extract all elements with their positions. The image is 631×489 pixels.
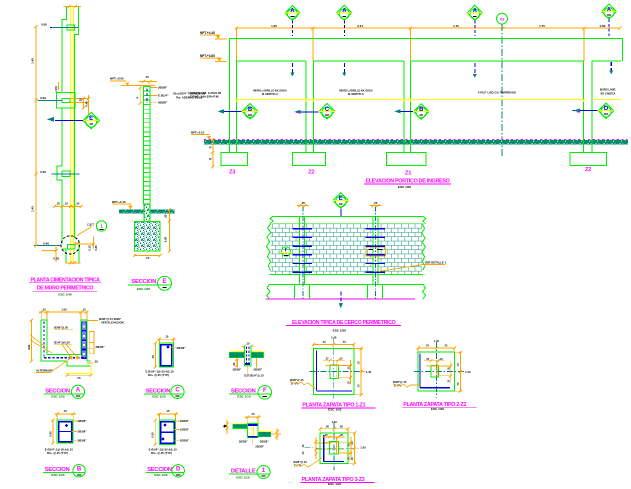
svg-text:2Ø3/8″: 2Ø3/8″	[78, 439, 88, 443]
seccion D stirrup	[161, 422, 174, 443]
svg-text:.70: .70	[322, 340, 326, 344]
fence column 2	[373, 224, 378, 274]
zapata PLANTA ZAPATA TIPO 3-Z3 outline	[320, 433, 348, 464]
zapata PLANTA ZAPATA TIPO 2-Z2 top dimension	[418, 347, 455, 349]
svg-text:1.40: 1.40	[465, 370, 471, 374]
detalle 1 notes	[252, 437, 254, 444]
zapata PLANTA ZAPATA TIPO 2-Z2 inner dims	[424, 360, 445, 362]
label SECCION B	[43, 465, 85, 478]
svg-text:NPT.+0.15: NPT.+0.15	[191, 130, 205, 134]
svg-text:Z1: Z1	[405, 170, 411, 176]
seccion A left dim	[30, 320, 32, 361]
svg-text:E: E	[162, 279, 166, 285]
seccion F left bar	[229, 352, 245, 358]
section E rebar dash	[146, 89, 148, 103]
fence column 1	[300, 224, 305, 274]
seccion B top dim	[55, 413, 77, 415]
svg-text:.15: .15	[82, 308, 86, 312]
seccion A top dimension	[39, 311, 88, 313]
svg-text:E: E	[339, 196, 343, 202]
seccion D outline	[159, 420, 175, 444]
svg-text:.70: .70	[425, 344, 429, 348]
cut line to marker E	[55, 119, 83, 121]
ground hatch band	[204, 140, 628, 145]
svg-text:.70: .70	[357, 384, 361, 388]
svg-text:KK CABEZA: KK CABEZA	[601, 92, 616, 95]
marker B column 3	[396, 110, 413, 112]
seccion A rebar bottom	[44, 357, 86, 359]
svg-text:.70: .70	[357, 361, 361, 365]
svg-text:.70: .70	[456, 362, 460, 366]
svg-text:ESC 1/25: ESC 1/25	[154, 473, 168, 477]
svg-text:Rto. @.25 (TYP): Rto. @.25 (TYP)	[47, 451, 68, 455]
detalle 1 column top bar	[248, 424, 258, 426]
zapata Z3 axis extension left	[305, 447, 317, 449]
zapata PLANTA ZAPATA TIPO 1-Z1 centerlines	[333, 338, 335, 401]
zapata PLANTA ZAPATA TIPO 1-Z1 inner dims	[323, 359, 344, 361]
svg-text:0.40: 0.40	[48, 431, 52, 437]
portico sill yellow line	[237, 98, 584, 100]
wall plan top dimension	[64, 5, 81, 7]
svg-text:.25: .25	[76, 202, 80, 206]
portico beam top chord	[229, 38, 622, 40]
svg-text:Z2: Z2	[308, 170, 314, 176]
section E right dimension	[168, 210, 170, 252]
seccion B mid bar	[59, 431, 72, 433]
svg-text:VER ELEVACION: VER ELEVACION	[101, 321, 124, 325]
svg-text:1.45: 1.45	[30, 58, 34, 64]
section marker A	[467, 5, 483, 20]
svg-text:Ø3/8″@.15: Ø3/8″@.15	[293, 460, 307, 464]
svg-text:1.40: 1.40	[434, 339, 440, 343]
svg-text:.25: .25	[151, 355, 155, 359]
svg-text:.15: .15	[246, 342, 250, 346]
portico column 4	[583, 61, 585, 153]
zapata PLANTA ZAPATA TIPO 3-Z3 inner dims	[322, 436, 345, 438]
column plan base	[67, 245, 75, 250]
detalle 1 label	[229, 466, 270, 480]
section E bottom dimension	[135, 254, 161, 256]
svg-text:NPT.+0.60: NPT.+0.60	[110, 77, 124, 81]
zapata PLANTA ZAPATA TIPO 1-Z1 outline	[314, 348, 354, 394]
svg-text:1.35: 1.35	[271, 24, 277, 28]
detalle 1 left bar	[233, 424, 248, 428]
svg-text:2Ø3/8″: 2Ø3/8″	[180, 439, 190, 443]
svg-text:0.15: 0.15	[88, 245, 92, 251]
plan title	[29, 277, 102, 296]
section E label	[128, 276, 172, 291]
zapata PLANTA ZAPATA TIPO 1-Z1 column	[330, 365, 338, 378]
svg-text:E: E	[89, 115, 93, 122]
column plan lower	[62, 171, 70, 176]
seccion D mid bar	[161, 431, 174, 433]
section marker E	[83, 112, 99, 128]
footing Z3 elevation	[221, 152, 248, 165]
ground magenta line	[204, 139, 628, 141]
svg-text:.15: .15	[145, 75, 149, 79]
zapata PLANTA ZAPATA TIPO 3-Z3 rebar	[323, 435, 325, 462]
seccion D top dim	[157, 413, 178, 415]
zapata PLANTA ZAPATA TIPO 3-Z3 right dimension	[354, 433, 356, 464]
marker B column 1	[222, 110, 243, 112]
zapata PLANTA ZAPATA TIPO 3-Z3 column	[329, 442, 338, 454]
fence column 1 base	[294, 284, 296, 299]
portico beam right end	[621, 39, 623, 61]
svg-text:Ø1/4″@0.20: Ø1/4″@0.20	[54, 340, 70, 344]
portico top dimension line	[236, 27, 620, 29]
zapata PLANTA ZAPATA TIPO 2-Z2 right dimension	[459, 352, 461, 391]
svg-text:D: D	[604, 106, 609, 112]
svg-text:2Ø3/8″: 2Ø3/8″	[78, 429, 88, 433]
axis line through lower column	[52, 173, 80, 175]
wall plan left outer line	[57, 6, 67, 263]
svg-text:ESC 1/25: ESC 1/25	[431, 407, 445, 411]
marker C column 2	[296, 111, 319, 113]
fence detail box	[366, 247, 386, 256]
seccion A outer wall	[41, 320, 90, 366]
axis line through top column	[53, 26, 78, 28]
fence column rebar bars	[293, 228, 312, 230]
svg-text:1.10: 1.10	[453, 24, 459, 28]
svg-text:.70: .70	[145, 256, 150, 260]
svg-text:MURO LADRILLO KK SOGA: MURO LADRILLO KK SOGA	[253, 90, 287, 93]
axis leader dashes below A markers	[291, 20, 293, 36]
axis X3 bubble	[497, 13, 508, 24]
svg-text:Rto. @.25 (TYP): Rto. @.25 (TYP)	[151, 451, 172, 455]
seccion C outline	[159, 343, 173, 367]
seccion A rebar right stirrups	[82, 322, 86, 331]
svg-text:ESC 1/25: ESC 1/25	[328, 407, 342, 411]
marker D column 4	[573, 110, 599, 112]
svg-text:X3: X3	[500, 16, 506, 21]
svg-text:.15: .15	[166, 409, 170, 413]
svg-text:CONC. 1:8+25% P.M.: CONC. 1:8+25% P.M.	[190, 94, 219, 98]
section marker A	[601, 4, 617, 19]
svg-text:.15: .15	[42, 308, 46, 312]
svg-text:2Ø3/8″: 2Ø3/8″	[239, 439, 248, 443]
svg-text:6 P1/2″ LISO C/A TEMPERADO: 6 P1/2″ LISO C/A TEMPERADO	[478, 90, 516, 94]
svg-text:.70: .70	[76, 376, 80, 380]
svg-text:1Ø3/8″: 1Ø3/8″	[180, 427, 190, 431]
svg-text:2Ø3/8″: 2Ø3/8″	[260, 439, 269, 443]
sill tick triangles	[235, 100, 238, 102]
column plan middle	[56, 93, 74, 108]
section marker B	[242, 104, 259, 120]
detalle 1 column	[247, 423, 258, 437]
zapata PLANTA ZAPATA TIPO 2-Z2 title	[402, 402, 476, 411]
svg-text:0.25: 0.25	[94, 245, 98, 251]
seccion F top dim	[241, 345, 255, 347]
svg-text:.30: .30	[163, 214, 167, 218]
lower dim .25 .15 .25	[55, 205, 82, 207]
detalle 1 top dim	[245, 416, 262, 418]
svg-text:ESC 1/40: ESC 1/40	[58, 293, 72, 297]
zapata PLANTA ZAPATA TIPO 2-Z2 column	[431, 365, 439, 376]
section E ground band	[119, 210, 174, 214]
fence top band right break	[423, 217, 426, 224]
middle column side dims	[70, 97, 89, 99]
zapata PLANTA ZAPATA TIPO 3-Z3 top dimension	[320, 428, 348, 430]
ground depth dimension	[212, 140, 214, 167]
section E footing	[135, 221, 161, 251]
svg-text:0.80: 0.80	[600, 24, 606, 28]
seccion F yellow cap line	[231, 351, 263, 353]
svg-text:2Ø3/8″: 2Ø3/8″	[253, 368, 262, 372]
svg-text:VER DETALLE 1: VER DETALLE 1	[425, 260, 447, 264]
portico top dim extension lines	[235, 28, 237, 61]
label SECCION D	[146, 465, 184, 478]
footing Z1 elevation	[386, 152, 426, 165]
seccion C left dim	[155, 343, 157, 367]
axis line through middle column	[37, 99, 62, 101]
seccion A leader lines	[62, 344, 78, 357]
section E wall neck hatch	[144, 204, 150, 221]
svg-text:0.60: 0.60	[41, 23, 47, 27]
svg-text:ESC 1/25: ESC 1/25	[51, 473, 65, 477]
seccion A rebar dots	[70, 357, 72, 359]
detalle 1 column bottom bar	[248, 436, 258, 438]
zapata PLANTA ZAPATA TIPO 2-Z2 outline	[418, 352, 455, 391]
svg-text:2Ø3/8″: 2Ø3/8″	[96, 345, 106, 349]
zapata PLANTA ZAPATA TIPO 2-Z2 rebar	[419, 354, 421, 388]
portico centerline	[501, 24, 503, 156]
fence lower band breaks	[267, 284, 270, 299]
section marker D	[598, 103, 615, 119]
svg-text:Z3: Z3	[229, 170, 235, 176]
seccion A inner lines	[47, 355, 90, 361]
svg-text:.50: .50	[325, 425, 329, 429]
svg-text:1.00: 1.00	[360, 446, 366, 450]
svg-text:1.75: 1.75	[539, 24, 545, 28]
svg-text:2Ø3/8″: 2Ø3/8″	[78, 419, 88, 423]
footing Z2 elevation	[292, 152, 325, 165]
svg-text:C: C	[175, 387, 180, 393]
svg-text:1.00: 1.00	[61, 308, 67, 312]
seccion F right bar	[251, 352, 264, 358]
fence brick left edge break	[266, 224, 271, 270]
fence brick field	[271, 224, 423, 274]
zapata PLANTA ZAPATA TIPO 2-Z2 centerlines	[435, 342, 437, 398]
svg-text:.25: .25	[56, 202, 60, 206]
svg-text:NPT.+0.15: NPT.+0.15	[112, 200, 126, 204]
svg-text:0.40: 0.40	[84, 101, 88, 107]
svg-text:C: C	[325, 107, 330, 113]
svg-text:EST.Ø1/4″@.10: EST.Ø1/4″@.10	[244, 373, 264, 377]
portico title	[364, 179, 451, 189]
svg-text:.20: .20	[233, 362, 236, 366]
svg-text:ESC 1/25: ESC 1/25	[51, 394, 65, 398]
svg-text:.15: .15	[165, 335, 169, 339]
svg-text:M. MORT/C:A: M. MORT/C:A	[262, 93, 278, 96]
fence marker F	[281, 247, 290, 256]
zapata PLANTA ZAPATA TIPO 3-Z3 centerlines	[333, 423, 335, 470]
svg-text:ESC 1/25: ESC 1/25	[328, 482, 342, 486]
svg-text:F: F	[285, 247, 288, 252]
svg-text:0.25: 0.25	[53, 257, 59, 261]
zapata PLANTA ZAPATA TIPO 1-Z1 title	[301, 402, 375, 411]
svg-text:3.44: 3.44	[357, 24, 363, 28]
footing Z2b elevation	[570, 152, 607, 165]
axis line through base column	[34, 244, 61, 246]
seccion F notes	[237, 358, 239, 368]
fence brick bottom line	[270, 273, 424, 275]
svg-text:2Ø3/8″: 2Ø3/8″	[255, 445, 264, 449]
svg-text:1.45: 1.45	[30, 206, 34, 212]
svg-text:.25: .25	[79, 98, 83, 102]
svg-text:B: B	[248, 107, 253, 113]
seccion D left dim	[154, 420, 156, 444]
svg-text:3Ø3/8″: 3Ø3/8″	[158, 86, 168, 90]
svg-text:.25: .25	[94, 359, 98, 363]
svg-text:Rto. @.25 (TYP): Rto. @.25 (TYP)	[148, 373, 169, 377]
section E rebar leaders	[151, 86, 158, 88]
svg-text:Ø3/8″@.15: Ø3/8″@.15	[290, 378, 304, 382]
base bottom tick line	[66, 262, 81, 264]
fence detail leader	[379, 265, 446, 272]
dim above middle column	[58, 82, 60, 90]
zapata PLANTA ZAPATA TIPO 1-Z1 rebar	[315, 351, 317, 391]
seccion A right wall dim bracket	[89, 332, 94, 354]
label SECCION C	[144, 385, 184, 398]
section E wall ladder	[144, 87, 150, 204]
section marker A	[336, 5, 352, 20]
svg-text:.15: .15	[64, 202, 68, 206]
seccion A rebar vertical left	[43, 322, 45, 357]
portico column 2	[305, 61, 307, 153]
svg-text:A: A	[76, 387, 81, 393]
section E left bracket dim	[139, 88, 141, 104]
seccion A bottom dim	[67, 374, 90, 376]
svg-text:B: B	[419, 107, 424, 113]
svg-text:ESC 1/50: ESC 1/50	[333, 328, 347, 332]
fence column 2 base	[367, 284, 369, 299]
seccion C top dim	[157, 338, 176, 340]
svg-text:2Ø3/8″: 2Ø3/8″	[180, 419, 190, 423]
section marker A	[284, 5, 300, 20]
svg-text:1.40: 1.40	[366, 370, 372, 374]
detalle 1 left dim	[226, 420, 228, 435]
svg-text:.70: .70	[342, 340, 346, 344]
wall plan right outer line	[74, 6, 79, 263]
seccion C bar dot	[166, 345, 169, 348]
column plan top	[67, 25, 74, 30]
svg-text:0.60: 0.60	[40, 170, 46, 174]
svg-text:2Ø3/8″: 2Ø3/8″	[177, 346, 187, 350]
svg-text:.25: .25	[301, 201, 305, 205]
seccion D bar dots	[163, 423, 166, 426]
portico beam bottom segments	[237, 60, 307, 62]
detalle 1 column inner lines	[250, 426, 252, 436]
fence bottom axis arrow	[340, 292, 342, 304]
cut arrow	[48, 117, 54, 121]
section E top level line	[121, 85, 155, 87]
svg-text:1.40: 1.40	[331, 336, 337, 340]
fence ground magenta line	[265, 298, 415, 300]
zapata PLANTA ZAPATA TIPO 1-Z1 right dimension	[360, 348, 362, 394]
svg-text:.50: .50	[339, 425, 343, 429]
zapata PLANTA ZAPATA TIPO 3-Z3 title	[301, 477, 375, 486]
svg-text:B: B	[77, 466, 82, 472]
seccion B left dim	[52, 420, 54, 443]
label SECCION F	[229, 386, 272, 400]
svg-text:Ø3/8″@.20: Ø3/8″@.20	[54, 325, 68, 329]
wall axis yellow lines	[70, 6, 72, 263]
seccion C stirrup	[161, 345, 172, 366]
svg-text:ESC 1/25: ESC 1/25	[152, 394, 166, 398]
detalle 1 right dim	[276, 429, 278, 440]
fence top band left break	[270, 217, 273, 224]
svg-text:ESC 1/50: ESC 1/50	[398, 185, 412, 189]
bay rebar dashes with arrows	[291, 63, 293, 73]
svg-text:0.60: 0.60	[43, 241, 49, 245]
svg-text:.70: .70	[456, 382, 460, 386]
svg-text:D: D	[176, 466, 181, 472]
svg-text:Ø3/8″@.15: Ø3/8″@.15	[393, 380, 407, 384]
portico column 1	[228, 39, 230, 153]
fence top band	[273, 217, 424, 224]
leader to detail 1	[77, 227, 92, 236]
detail bubble at wall base	[61, 236, 79, 254]
section marker E	[332, 193, 349, 209]
seccion B stirrup	[59, 422, 72, 442]
section marker B	[413, 104, 430, 120]
svg-text:3Ø3/8″: 3Ø3/8″	[158, 101, 168, 105]
section E wall width dim	[139, 81, 158, 83]
svg-text:.15: .15	[63, 409, 67, 413]
svg-text:VAR.: VAR.	[27, 344, 31, 350]
seccion B bar dot	[65, 424, 68, 427]
svg-text:(.25): (.25)	[54, 86, 58, 91]
svg-text:ESC 1/10: ESC 1/10	[237, 395, 251, 399]
seccion A yellow corner	[65, 366, 90, 373]
base right dimension	[74, 243, 94, 245]
left vertical dimension line	[35, 27, 37, 246]
svg-text:Z2: Z2	[585, 167, 591, 173]
portico column 3	[403, 61, 405, 153]
svg-text:2Ø3/8″: 2Ø3/8″	[232, 368, 241, 372]
fence brick right edge break	[422, 224, 426, 270]
svg-text:F: F	[263, 388, 267, 394]
svg-text:MURO LADR.: MURO LADR.	[600, 89, 616, 92]
zapata PLANTA ZAPATA TIPO 1-Z1 top dimension	[314, 343, 354, 345]
svg-text:ESC 1/25: ESC 1/25	[137, 287, 151, 291]
svg-text:0.60: 0.60	[40, 96, 46, 100]
seccion F left dim	[236, 359, 238, 365]
fence lower band line	[270, 283, 424, 285]
section marker C	[319, 104, 336, 120]
seccion B outline	[57, 420, 73, 443]
label SECCION A	[44, 385, 85, 398]
svg-text:P: P	[136, 96, 140, 98]
svg-text:0.50: 0.50	[151, 432, 155, 438]
zapata Z3 left dim cluster	[315, 437, 317, 458]
svg-text:ESC 1/10: ESC 1/10	[236, 475, 250, 479]
base left dimension	[41, 249, 56, 251]
fence title	[286, 320, 401, 333]
seccion F column	[244, 346, 251, 367]
svg-text:M. MORT/C:A: M. MORT/C:A	[348, 93, 364, 96]
column plan middle inner	[62, 98, 70, 102]
svg-text:E.Ø1/4″: E.Ø1/4″	[158, 94, 169, 98]
detalle 1 right bar	[258, 432, 271, 437]
svg-text:0.80: 0.80	[163, 236, 167, 242]
svg-text:.70: .70	[444, 344, 448, 348]
svg-text:1.00: 1.00	[331, 420, 337, 424]
svg-text:MURO LADRILLO KK SOGA: MURO LADRILLO KK SOGA	[339, 90, 373, 93]
svg-text:.15: .15	[251, 412, 255, 416]
